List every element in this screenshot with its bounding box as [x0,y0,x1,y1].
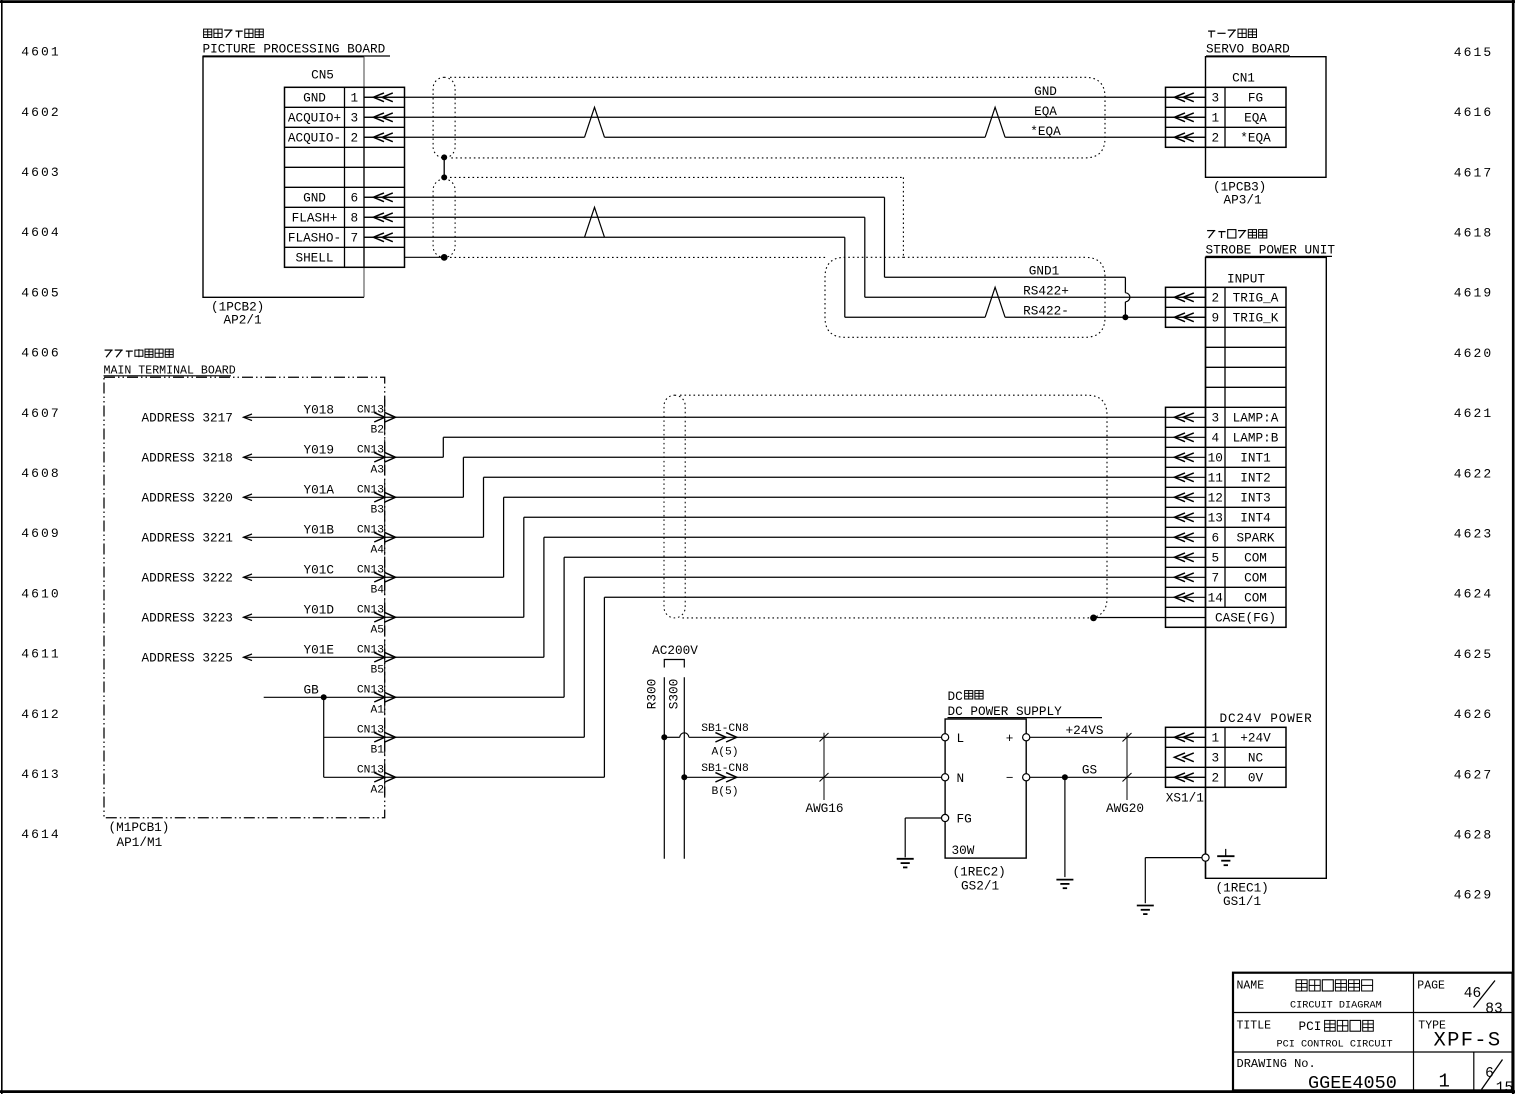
svg-text:4610: 4610 [21,586,61,601]
junction shield 2 link [441,174,447,180]
svg-text:Y01C: Y01C [304,563,335,578]
svg-text:INPUT: INPUT [1227,271,1265,286]
title block title PCI CONTROL CIRCUIT [1277,1039,1393,1050]
svg-text:FLASH+: FLASH+ [292,211,338,226]
svg-text:7: 7 [1211,571,1219,586]
svg-text:4613: 4613 [21,767,61,782]
wire R300 phase [663,677,665,858]
terminal + output [1006,731,1030,746]
wire ACQUIO- CN5-2 to CN1-2 *EQA [364,136,1206,138]
svg-text:+: + [1006,731,1014,746]
strobe unit refdes GS1/1 [1223,894,1261,909]
DC supply title (Japanese) DC電源 [948,689,984,704]
cable outline (ACQUIO cable to servo) [450,77,1105,158]
svg-text:4: 4 [1211,431,1219,446]
signal Y01A to ADDRESS 3220 [142,483,386,506]
svg-text:4606: 4606 [21,346,61,361]
svg-text:TITLE: TITLE [1237,1019,1272,1032]
board AP2 refdes (1PCB2) [211,300,264,315]
svg-text:S300: S300 [667,679,682,709]
DC supply refdes GS2/1 [961,878,999,893]
cable shield oval (strobe signal cable) [664,395,685,618]
svg-text:ADDRESS 3220: ADDRESS 3220 [142,491,233,506]
title block DRAWING No. label [1237,1057,1316,1071]
signal Y01C to ADDRESS 3222 [142,563,386,586]
svg-text:*EQA: *EQA [1240,131,1271,146]
strobe DC24V pin names and numbers [1211,731,1271,786]
connector CN1 pin names and numbers [1211,91,1271,146]
svg-text:2: 2 [350,131,358,146]
terminal - output [1006,770,1030,785]
wire +24VS [1030,736,1206,738]
strobe INPUT connector table grid [1166,287,1287,627]
svg-text:INT2: INT2 [1240,471,1270,486]
title block PAGE label [1417,980,1445,993]
strobe case earth terminal [1202,854,1209,861]
cable shield oval (ACQUIO pairs) [433,77,455,158]
svg-text:14: 14 [1208,591,1223,606]
svg-text:Y01E: Y01E [304,643,334,658]
svg-text:B2: B2 [370,425,384,437]
svg-text:AP1/M1: AP1/M1 [117,835,163,850]
strobe INPUT connector label [1227,271,1265,286]
svg-text:B4: B4 [370,585,384,597]
svg-text:RS422-: RS422- [1023,303,1069,318]
cable label AWG20 [1106,801,1144,816]
svg-text:AWG16: AWG16 [805,801,843,816]
svg-text:N: N [957,771,965,786]
svg-text:RS422+: RS422+ [1023,283,1069,298]
svg-text:(M1PCB1): (M1PCB1) [109,820,170,835]
svg-text:A(5): A(5) [711,746,738,758]
title block TITLE label [1237,1019,1272,1032]
wire hop L over S300 [680,733,689,738]
svg-text:COM: COM [1244,551,1267,566]
connector CN13 pin A1 [357,679,396,716]
wire GB branch vertical [323,697,325,777]
title block drawing number GGEE4050 [1308,1073,1397,1094]
terminal N [942,771,965,786]
wire N phase to DC supply [684,776,941,778]
board AP1 refdes (M1PCB1) [109,820,170,835]
signal Y018 to ADDRESS 3217 [142,403,386,426]
twisted pair symbol (ACQUIO left) [585,107,605,137]
svg-text:GS1/1: GS1/1 [1223,894,1261,909]
svg-text:4611: 4611 [21,647,61,662]
cable outline bottom (FLASH cable) [450,256,828,258]
svg-text:Y01A: Y01A [304,483,335,498]
svg-text:GS: GS [1082,763,1097,778]
cable outline (strobe trigger cable) [825,257,1105,337]
svg-text:B(5): B(5) [711,786,738,798]
connector CN1 label [1232,71,1255,86]
svg-text:SB1-CN8: SB1-CN8 [701,723,749,735]
net label +24VS [1065,723,1103,738]
twisted pair symbol (ACQUIO right) [985,107,1005,137]
svg-text:−: − [1006,770,1014,785]
svg-text:15: 15 [1496,1080,1513,1094]
svg-text:11: 11 [1208,471,1223,486]
wire GB branch to CN13-A2 [324,776,385,778]
svg-text:6: 6 [1211,531,1219,546]
wire L phase to DC supply [664,736,941,738]
signal Y01E to ADDRESS 3225 [142,643,386,666]
svg-text:AWG20: AWG20 [1106,801,1144,816]
connector CN5 pin names and numbers [288,91,358,266]
svg-text:PICTURE PROCESSING BOARD: PICTURE PROCESSING BOARD [203,42,386,57]
twisted pair symbol (FLASH left) [585,207,605,237]
connector CN13 pin B5 [357,639,396,676]
signal Y019 to ADDRESS 3218 [142,443,386,466]
earth ground for FG [897,859,914,868]
wire GB-A2/COM [385,597,1166,777]
net label GND (cable) [1034,84,1057,99]
board AP3 SERVO BOARD outline [1206,57,1327,178]
connector CN13 pin B1 [357,719,396,756]
connector CN5 label [311,68,334,83]
strobe internal earth symbol [1217,849,1234,865]
junction GS to earth [1062,774,1068,780]
wire Y01B/INT2 [385,477,1166,537]
wire GND1 from CN5-6 [364,197,1125,317]
DC supply title DC POWER SUPPLY [948,704,1103,719]
left margin line numbers 4601-4614 [21,45,61,843]
wire Y019/LAMP:B [385,437,1166,457]
svg-text:PAGE: PAGE [1417,980,1445,993]
svg-text:4621: 4621 [1454,406,1494,421]
svg-text:0V: 0V [1248,771,1264,786]
connector CN13 pin A2 [357,759,396,796]
wire GB branch to CN13-B1 [324,736,385,738]
svg-text:COM: COM [1244,591,1267,606]
svg-text:A1: A1 [370,705,384,717]
svg-text:XPF-S: XPF-S [1434,1030,1502,1053]
wire GND CN5-1 to CN1-3 FG [364,96,1206,98]
svg-text:SHELL: SHELL [295,251,333,266]
svg-text:4628: 4628 [1454,828,1494,843]
net label RS422+ (cable) [1023,283,1069,298]
shield link wire between cables [443,157,445,177]
svg-text:INT3: INT3 [1240,491,1270,506]
svg-text:4601: 4601 [21,45,61,60]
svg-text:4609: 4609 [21,526,61,541]
board AP3 refdes AP3/1 [1224,193,1262,208]
svg-text:ADDRESS 3217: ADDRESS 3217 [142,411,233,426]
DC supply rating 30W [952,843,975,858]
junction shield 1 to link [441,154,447,160]
board AP1 MAIN TERMINAL BOARD outline (chain line) [104,377,385,817]
svg-text:4622: 4622 [1454,466,1494,481]
svg-text:FG: FG [957,812,972,827]
svg-text:PCI: PCI [1299,1019,1322,1034]
svg-text:ACQUIO-: ACQUIO- [288,131,341,146]
earth ground for GS [1056,880,1073,889]
cable outline (strobe signal cable) [680,395,1107,618]
title block type XPF-S [1434,1030,1502,1053]
wire RS422- from CN5-7 FLASHO- [364,237,1206,317]
svg-text:LAMP:A: LAMP:A [1233,411,1279,426]
junction shield to CASE(FG) [1090,615,1097,622]
svg-text:2: 2 [1211,131,1219,146]
svg-text:3: 3 [1211,751,1219,766]
svg-text:Y01D: Y01D [304,603,334,618]
wire SHELL to shield [405,256,445,258]
svg-text:7: 7 [350,231,358,246]
wire Y01E/SPARK [385,537,1166,657]
svg-text:DC: DC [948,689,964,704]
svg-text:EQA: EQA [1244,111,1267,126]
svg-text:10: 10 [1208,451,1223,466]
wire Y018/LAMP:A [385,416,1166,418]
cable AWG16 leader [820,733,829,800]
wire hop GND1 over RS422+ [1125,293,1130,302]
svg-text:4614: 4614 [21,827,61,842]
svg-text:SPARK: SPARK [1236,531,1274,546]
svg-text:8: 8 [350,211,358,226]
svg-text:CASE(FG): CASE(FG) [1215,611,1276,626]
svg-text:COM: COM [1244,571,1267,586]
cable shield oval (FLASH pairs) [433,179,455,257]
svg-text:GND1: GND1 [1029,263,1059,278]
svg-text:4612: 4612 [21,707,61,722]
svg-text:9: 9 [1211,311,1219,326]
svg-text:GND: GND [303,191,326,206]
svg-text:ACQUIO+: ACQUIO+ [288,111,341,126]
title block sheet 1 [1438,1071,1449,1093]
wire Y01A/INT1 [385,457,1166,497]
svg-text:46: 46 [1464,986,1481,1002]
svg-text:13: 13 [1208,511,1223,526]
svg-text:4604: 4604 [21,225,61,240]
net label S300 [667,679,682,709]
AC200V phase bracket [664,660,684,668]
svg-text:B5: B5 [370,665,384,677]
strobe DC24V connector XS1 table grid [1166,727,1287,787]
connector SB1-CN8 A(5) [701,723,749,759]
svg-text:XS1/1: XS1/1 [1166,790,1204,805]
connector CN13 pin B3 [357,479,396,516]
wire GS down to earth [1064,777,1066,877]
strobe power unit outline GS1 [1206,257,1327,878]
svg-text:1: 1 [350,91,358,106]
twisted pair symbol (RS422 right) [985,287,1005,317]
net label *EQA (cable) [1030,124,1061,139]
svg-text:+24VS: +24VS [1065,723,1103,738]
board AP2 title (Japanese) 画像入力基板 [204,29,264,37]
svg-text:4616: 4616 [1454,105,1494,120]
svg-text:+24V: +24V [1240,731,1271,746]
title block name CIRCUIT DIAGRAM [1290,1001,1382,1012]
svg-text:Y01B: Y01B [304,523,335,538]
board AP1 title MAIN TERMINAL BOARD [104,364,236,377]
svg-text:INT4: INT4 [1240,511,1270,526]
title block grid [1233,973,1513,1091]
net label GS [1082,763,1097,778]
svg-text:4625: 4625 [1454,647,1494,662]
svg-text:R300: R300 [644,679,659,709]
svg-text:4617: 4617 [1454,165,1494,180]
svg-text:3: 3 [350,111,358,126]
signal Y01B to ADDRESS 3221 [142,523,386,546]
svg-text:L: L [957,731,965,746]
terminal FG [942,812,972,827]
wire RS422+ from CN5-8 FLASH+ [364,217,1206,297]
svg-text:PCI CONTROL CIRCUIT: PCI CONTROL CIRCUIT [1277,1039,1393,1050]
svg-text:4618: 4618 [1454,226,1494,241]
svg-text:INT1: INT1 [1240,451,1270,466]
svg-text:12: 12 [1208,491,1223,506]
connector CN5 table grid [285,87,405,267]
wire Y01D/INT4 [385,517,1166,617]
svg-text:3: 3 [1211,411,1219,426]
svg-text:DC24V POWER: DC24V POWER [1220,711,1313,726]
svg-text:A2: A2 [370,785,384,797]
strobe unit refdes (1REC1) [1216,880,1269,895]
title block name (Japanese) 電気回路線図 [1296,980,1373,991]
svg-text:Y019: Y019 [304,443,334,458]
connector label XS1/1 [1166,790,1204,805]
svg-text:NC: NC [1248,751,1264,766]
junction S300 to N [681,774,687,780]
cable label AWG16 [805,801,843,816]
svg-text:CIRCUIT DIAGRAM: CIRCUIT DIAGRAM [1290,1001,1382,1012]
svg-text:4629: 4629 [1454,888,1494,903]
svg-text:ADDRESS 3222: ADDRESS 3222 [142,571,233,586]
svg-text:4626: 4626 [1454,707,1494,722]
svg-text:4605: 4605 [21,285,61,300]
svg-text:B3: B3 [370,505,384,517]
svg-text:TRIG_A: TRIG_A [1233,291,1279,306]
connector CN1 table grid [1166,87,1287,147]
svg-text:CN1: CN1 [1232,71,1255,86]
wire FG to earth [905,818,941,857]
strobe INPUT pin arrows [1166,293,1206,602]
wire Y01C/INT3 [385,497,1166,577]
connector CN5 pin arrows [364,93,405,242]
net label R300 [644,679,659,709]
strobe DC24V pin arrows [1166,733,1206,782]
board AP3 refdes (1PCB3) [1213,180,1266,195]
svg-text:(1REC2): (1REC2) [953,864,1006,879]
board AP3 title (Japanese) サーボ基板 [1208,29,1256,37]
svg-text:CN5: CN5 [311,68,334,83]
svg-text:SB1-CN8: SB1-CN8 [701,763,749,775]
board AP2 refdes AP2/1 [224,313,262,328]
svg-text:STROBE POWER UNIT: STROBE POWER UNIT [1206,242,1336,257]
strobe DC24V POWER label [1220,711,1313,726]
svg-text:4602: 4602 [21,105,61,120]
svg-text:4607: 4607 [21,406,61,421]
wire S300 phase [683,677,685,858]
net label GND1 (cable) [1029,263,1059,278]
wire strobe case to earth [1145,858,1202,904]
svg-text:B1: B1 [370,745,384,757]
svg-text:DRAWING No.: DRAWING No. [1237,1057,1316,1071]
svg-text:2: 2 [1211,291,1219,306]
board AP2 PICTURE PROCESSING BOARD outline [203,57,364,298]
title block NAME label [1237,980,1265,993]
svg-text:4615: 4615 [1454,45,1494,60]
svg-text:TRIG_K: TRIG_K [1233,311,1279,326]
net label RS422- (cable) [1023,303,1069,318]
connector CN13 pin A3 [357,439,396,476]
svg-text:4620: 4620 [1454,346,1494,361]
svg-text:SERVO BOARD: SERVO BOARD [1206,42,1290,57]
board AP2 title PICTURE PROCESSING BOARD [203,42,391,57]
svg-text:GGEE4050: GGEE4050 [1308,1073,1397,1094]
svg-text:4627: 4627 [1454,767,1494,782]
title block TYPE label [1418,1019,1446,1032]
svg-text:AC200V: AC200V [652,643,698,658]
signal Y01D to ADDRESS 3223 [142,603,386,626]
strobe INPUT pin names and numbers [1208,291,1279,626]
title block title PCI (Japanese) 制御回路 [1299,1019,1374,1034]
right margin line numbers 4615-4629 [1454,45,1494,903]
svg-text:4619: 4619 [1454,286,1494,301]
cable outline top (FLASH cable) [450,177,903,257]
title block page number 46/83 [1464,981,1503,1018]
svg-text:ADDRESS 3218: ADDRESS 3218 [142,451,233,466]
net label EQA (cable) [1034,104,1057,119]
svg-text:1: 1 [1211,111,1219,126]
wire GB-A1/COM [385,557,1166,697]
earth ground for strobe case [1137,906,1154,915]
net label AC200V [652,643,698,658]
svg-text:ADDRESS 3225: ADDRESS 3225 [142,651,233,666]
svg-text:ADDRESS 3221: ADDRESS 3221 [142,531,233,546]
board AP1 refdes AP1/M1 [117,835,163,850]
svg-text:GB: GB [304,683,320,698]
DC supply refdes (1REC2) [953,864,1006,879]
svg-text:30W: 30W [952,843,975,858]
svg-text:ADDRESS 3223: ADDRESS 3223 [142,611,233,626]
connector CN13 pin A5 [357,599,396,636]
svg-text:FG: FG [1248,91,1263,106]
junction R300 to L [661,734,667,740]
connector SB1-CN8 B(5) [701,763,749,798]
svg-text:4624: 4624 [1454,587,1494,602]
svg-text:2: 2 [1211,771,1219,786]
svg-text:A3: A3 [370,465,384,477]
svg-text:Y018: Y018 [304,403,334,418]
svg-text:DC POWER SUPPLY: DC POWER SUPPLY [948,704,1063,719]
node GB wire [264,683,385,698]
svg-text:AP3/1: AP3/1 [1224,193,1262,208]
svg-text:FLASHO-: FLASHO- [288,231,341,246]
svg-text:LAMP:B: LAMP:B [1233,431,1279,446]
svg-text:AP2/1: AP2/1 [224,313,262,328]
junction SHELL to shield [441,254,448,261]
strobe unit title (Japanese) ストロボ電源 [1207,230,1267,238]
DC power supply GS2 outline [945,719,1026,858]
wire shield to CASE(FG) [1094,617,1206,619]
junction GND1/RS422- at TRIG_K [1122,314,1128,320]
connector CN13 pin A4 [357,519,396,556]
wire GB-B1/COM [385,577,1166,737]
cable AWG20 leader [1123,733,1132,800]
svg-text:A4: A4 [370,545,384,557]
svg-text:1: 1 [1438,1071,1449,1093]
svg-text:NAME: NAME [1237,980,1265,993]
svg-text:3: 3 [1211,91,1219,106]
connector CN1 pin arrows [1166,93,1206,142]
terminal L [942,731,965,746]
svg-text:83: 83 [1485,1002,1502,1018]
board AP1 title (Japanese) メイン中継基板 [105,349,174,357]
svg-text:4608: 4608 [21,466,61,481]
svg-text:GND: GND [303,91,326,106]
junction on GB [321,694,327,700]
